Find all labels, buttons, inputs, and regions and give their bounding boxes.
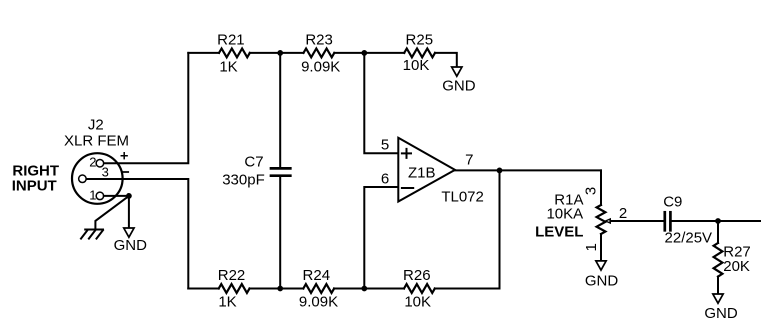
wire C7 bottom <box>279 177 281 288</box>
ground GND top right <box>452 67 462 76</box>
svg-text:J2: J2 <box>88 117 104 134</box>
resistor R22 <box>219 284 250 293</box>
capacitor C7 <box>271 168 290 175</box>
node junction top B <box>361 50 367 56</box>
wire op-amp output to pot <box>455 169 601 171</box>
XLR pin 3 circle <box>79 175 87 183</box>
svg-text:R23: R23 <box>305 31 333 48</box>
resistor R26 <box>404 284 435 293</box>
svg-text:GND: GND <box>585 273 619 290</box>
svg-text:1K: 1K <box>218 294 236 311</box>
node junction bottom A <box>277 286 283 292</box>
svg-text:3: 3 <box>582 187 599 195</box>
wire top row between R21 and R23 <box>250 52 304 54</box>
resistor R21 <box>219 49 250 58</box>
svg-text:2: 2 <box>619 205 627 222</box>
ground GND XLR <box>124 228 134 237</box>
wire XLR plus to top row <box>104 53 189 163</box>
svg-text:7: 7 <box>465 152 473 169</box>
wire XLR pin 1 to ground node <box>104 195 129 197</box>
wire pot bottom <box>600 234 602 261</box>
resistor R23 <box>304 49 335 58</box>
XLR pin 2 circle <box>96 159 104 167</box>
op-amp minus input mark <box>402 187 413 189</box>
wire R27 to ground <box>717 277 719 294</box>
XLR pin 1 circle <box>96 192 104 200</box>
svg-text:6: 6 <box>381 171 389 188</box>
resistor R25 <box>404 49 435 58</box>
resistor R24 <box>303 284 334 293</box>
wire to op-amp pin 6 <box>364 187 398 289</box>
svg-text:5: 5 <box>381 136 389 153</box>
wire C9 to right edge <box>672 220 761 222</box>
svg-text:C7: C7 <box>244 154 263 171</box>
ground GND pot <box>596 261 606 270</box>
svg-text:GND: GND <box>442 77 476 94</box>
op-amp plus input mark <box>402 149 411 158</box>
svg-text:9.09K: 9.09K <box>301 58 340 75</box>
wire C7 top <box>279 53 281 167</box>
svg-text:10K: 10K <box>403 57 430 74</box>
node junction bottom B <box>361 286 367 292</box>
minus polarity mark <box>123 171 128 173</box>
svg-text:C9: C9 <box>663 194 682 211</box>
wire bottom row right to feedback <box>435 170 500 288</box>
svg-text:1K: 1K <box>219 58 237 75</box>
svg-text:1: 1 <box>89 188 96 203</box>
svg-text:1: 1 <box>583 243 600 251</box>
node output junction <box>497 168 503 174</box>
svg-text:R22: R22 <box>218 267 246 284</box>
wire wiper to C9 <box>610 220 663 222</box>
wire top row left segment <box>188 52 219 54</box>
wire bottom row between R22 and R24 <box>250 288 304 290</box>
svg-text:2: 2 <box>89 154 96 169</box>
potentiometer R1A element <box>597 205 606 234</box>
node pin1 junction <box>126 193 132 199</box>
resistor R27 <box>714 243 723 277</box>
svg-text:10KA: 10KA <box>546 206 583 223</box>
wire to op-amp pin 5 <box>364 53 398 153</box>
svg-text:GND: GND <box>114 237 148 254</box>
connector J2 XLR FEM body <box>72 153 123 204</box>
chassis ground symbol <box>81 230 103 239</box>
node junction top A <box>277 50 283 56</box>
pot wiper arrow <box>606 219 611 223</box>
svg-text:9.09K: 9.09K <box>299 294 338 311</box>
svg-text:10K: 10K <box>404 294 431 311</box>
node junction R27 <box>715 218 721 224</box>
wire junction to R27 <box>717 221 719 243</box>
svg-text:LEVEL: LEVEL <box>535 223 583 240</box>
svg-text:R26: R26 <box>403 267 431 284</box>
svg-text:GND: GND <box>704 305 738 322</box>
wire XLR minus to bottom row <box>86 179 188 289</box>
svg-text:Z1B: Z1B <box>408 165 436 182</box>
capacitor C9 <box>665 212 671 230</box>
svg-text:TL072: TL072 <box>441 188 484 205</box>
svg-text:R25: R25 <box>406 31 434 48</box>
op-amp Z1B <box>398 138 455 202</box>
wire from R25 to ground <box>435 53 457 67</box>
svg-text:INPUT: INPUT <box>12 178 57 195</box>
wire top row between R23 and R25 <box>334 52 404 54</box>
ground GND bottom right <box>713 294 723 303</box>
wire pin1 node to chassis <box>95 196 128 230</box>
plus polarity mark <box>121 153 127 159</box>
svg-text:330pF: 330pF <box>222 171 265 188</box>
svg-text:20K: 20K <box>723 258 750 275</box>
svg-text:R24: R24 <box>303 267 331 284</box>
svg-text:XLR FEM: XLR FEM <box>64 133 129 150</box>
wire bottom row between R24 and R26 <box>334 288 404 290</box>
svg-text:R21: R21 <box>217 31 245 48</box>
wire pin1 node to GND <box>128 196 130 228</box>
svg-text:22/25V: 22/25V <box>665 229 713 246</box>
svg-text:3: 3 <box>102 165 109 180</box>
potentiometer R1A terminal 3 wire <box>600 170 602 205</box>
wire bottom row left segment <box>188 288 218 290</box>
